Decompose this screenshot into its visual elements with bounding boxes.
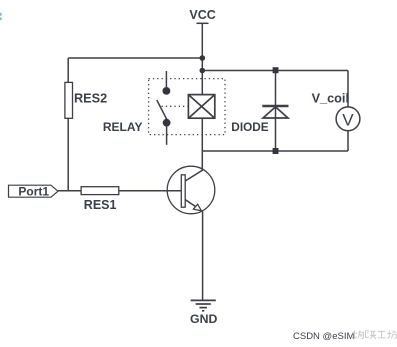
svg-text:CSDN @eSIM: CSDN @eSIM: [293, 331, 354, 342]
svg-text:RES2: RES2: [74, 91, 107, 105]
svg-text:RELAY: RELAY: [103, 120, 143, 134]
svg-text:V_coil: V_coil: [312, 92, 349, 106]
svg-text:DIODE: DIODE: [231, 120, 268, 134]
svg-text:V: V: [342, 110, 354, 129]
svg-text:Port1: Port1: [18, 184, 49, 198]
svg-text:GND: GND: [190, 312, 217, 326]
svg-text:RES1: RES1: [84, 198, 117, 212]
svg-text:VCC: VCC: [189, 8, 215, 22]
